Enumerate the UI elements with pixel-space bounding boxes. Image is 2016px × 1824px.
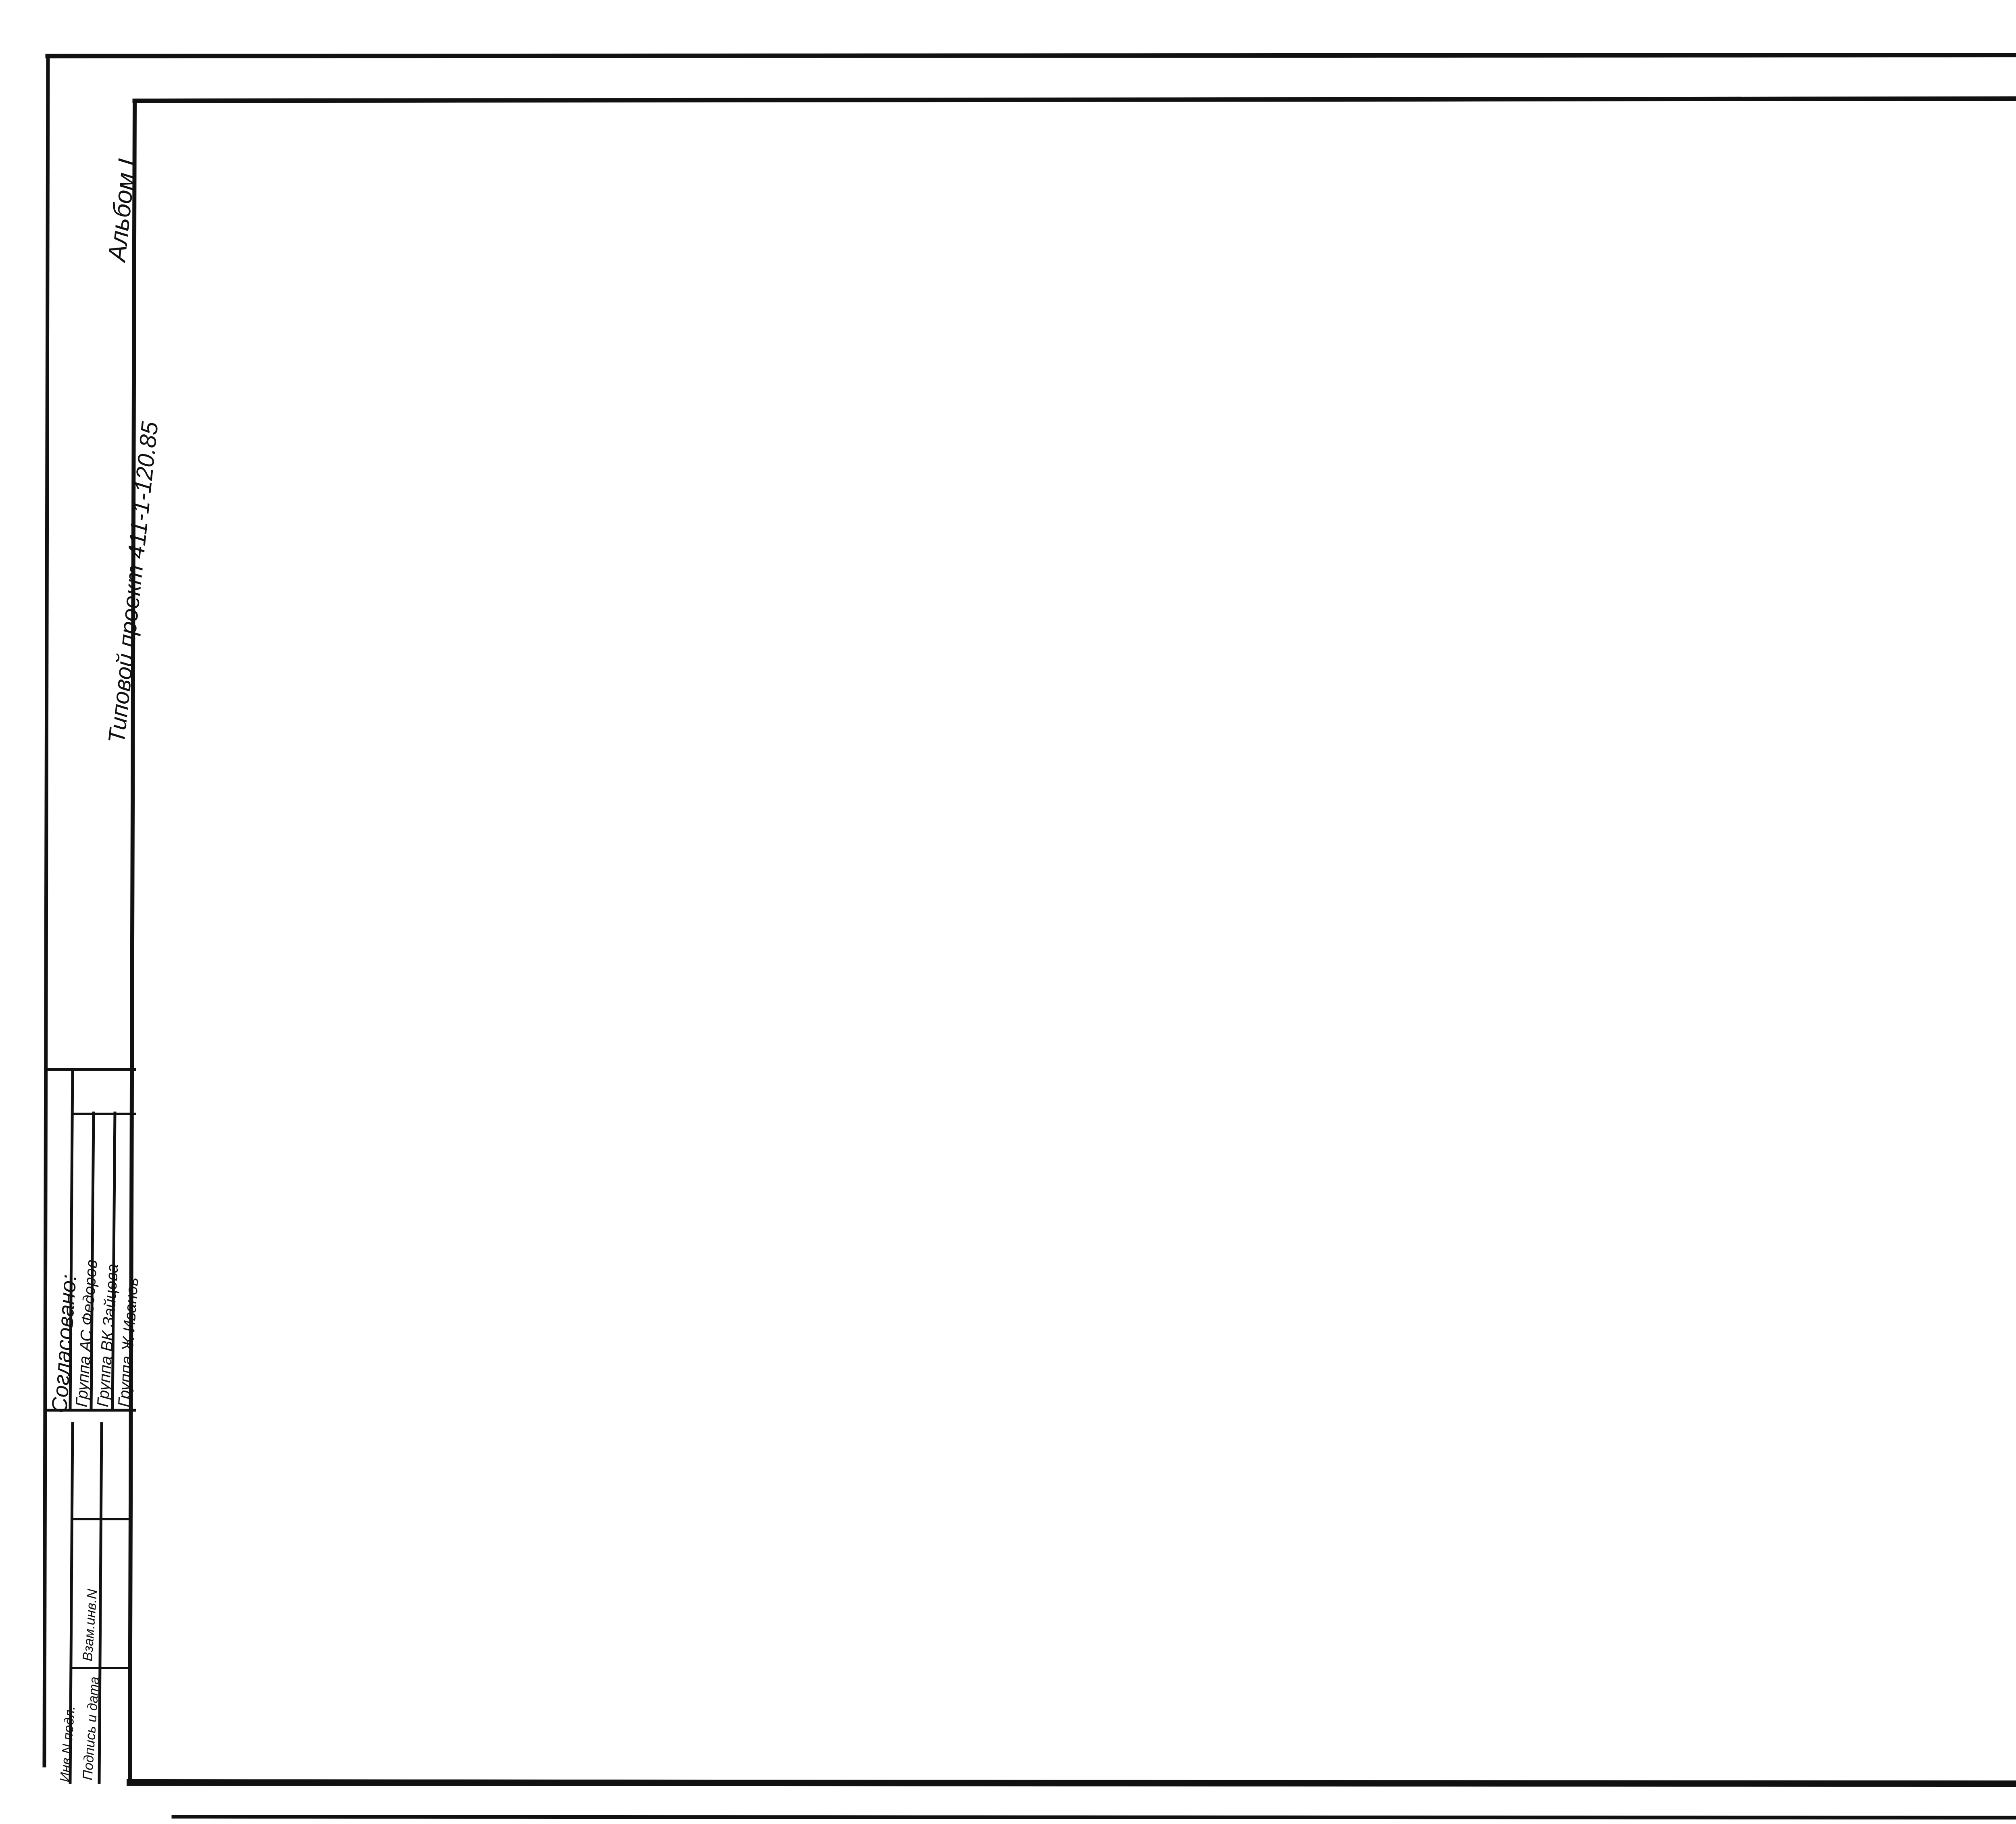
lower margin boxes <box>48 1423 135 1424</box>
sign-off table lines <box>48 1068 135 1071</box>
ATTIC PLAN PLACEHOLDER <box>0 0 0 0</box>
FLOOR PLAN PLACEHOLDER <box>0 0 0 0</box>
outer border top <box>48 55 2016 56</box>
PODPOLYE PLACEHOLDER <box>0 0 0 0</box>
inner border left <box>130 101 135 1782</box>
outer border left <box>44 56 48 1766</box>
PRIBORY TABLE PLACEHOLDER <box>0 0 0 0</box>
outer border bottom <box>173 1817 2016 1818</box>
inner border top <box>135 98 2016 101</box>
TITLE BLOCK PLACEHOLDER <box>0 0 0 0</box>
inner border bottom (thick) <box>130 1782 2016 1784</box>
